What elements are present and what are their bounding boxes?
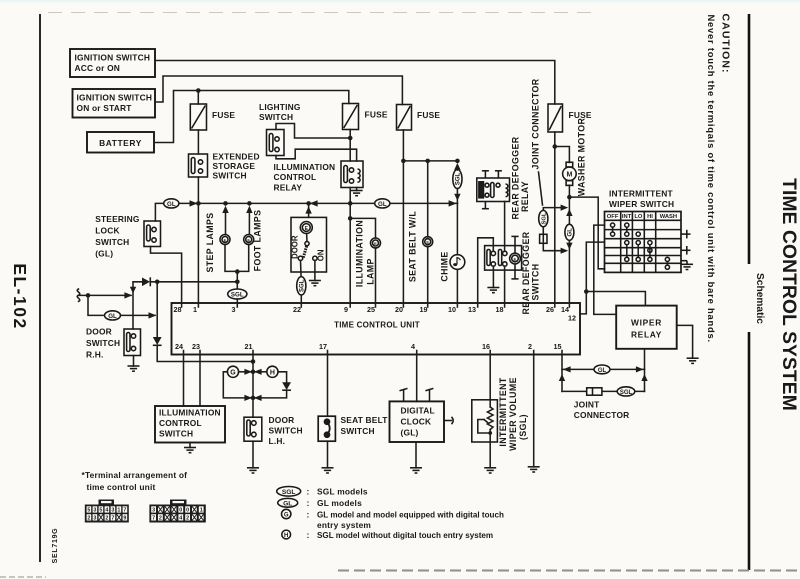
wiper switch terminal stub 1 bbox=[681, 230, 691, 239]
wire diode D2 to pin21 node bbox=[157, 345, 253, 361]
G circle bbox=[227, 366, 238, 377]
ground wiper volume bbox=[484, 468, 496, 473]
svg-text:SWITCH: SWITCH bbox=[269, 426, 303, 436]
chime sounder bbox=[450, 255, 465, 270]
svg-text:0: 0 bbox=[179, 508, 182, 514]
door switch RH bbox=[124, 329, 141, 356]
step lamps connector arrow bbox=[222, 206, 228, 213]
svg-text:4: 4 bbox=[105, 508, 108, 514]
svg-text:STORAGE: STORAGE bbox=[213, 161, 256, 171]
wire: battery branch down to fuse1 bbox=[197, 91, 199, 105]
svg-text:TIME CONTROL UNIT: TIME CONTROL UNIT bbox=[334, 321, 420, 330]
wire chime to pin 10 bbox=[456, 269, 458, 303]
fuse F1 bbox=[190, 104, 206, 130]
wire squiggle to door switch column bbox=[79, 294, 132, 296]
svg-text:CAUTION:: CAUTION: bbox=[720, 14, 732, 74]
wiper switch column headers bbox=[607, 214, 677, 220]
svg-text:H: H bbox=[270, 370, 275, 377]
connector arrow G side bbox=[244, 369, 252, 375]
node bus/fuse1 bbox=[196, 201, 201, 206]
wire seat belt w/l column bbox=[427, 161, 429, 237]
ground digital clock bbox=[410, 468, 422, 473]
bulb seat belt w/l bbox=[423, 237, 433, 247]
svg-text:DOOR: DOOR bbox=[86, 327, 112, 337]
svg-text:ON: ON bbox=[316, 249, 325, 261]
svg-text:ACC or ON: ACC or ON bbox=[75, 63, 121, 73]
node bus/foot lamps bbox=[247, 201, 252, 206]
svg-text::: : bbox=[307, 530, 310, 540]
GL oval right bbox=[375, 199, 390, 208]
SGL oval lamps bbox=[228, 289, 247, 299]
svg-text::: : bbox=[307, 487, 310, 497]
svg-text:LOCK: LOCK bbox=[95, 226, 120, 236]
svg-text:SWITCH: SWITCH bbox=[95, 237, 129, 247]
svg-text:1: 1 bbox=[117, 508, 120, 514]
svg-text:EL-102: EL-102 bbox=[10, 263, 30, 329]
seat belt switch bbox=[318, 416, 335, 441]
svg-text:SEL719G: SEL719G bbox=[52, 528, 59, 564]
wire lamps merge bbox=[225, 245, 249, 272]
svg-text:3: 3 bbox=[93, 516, 96, 522]
svg-text:E: E bbox=[247, 237, 250, 242]
wire fuse1 to ESS bbox=[197, 130, 199, 154]
svg-text:DOOR: DOOR bbox=[291, 235, 300, 259]
connector arrow up right bbox=[641, 374, 647, 381]
svg-text:SWITCH: SWITCH bbox=[259, 112, 293, 122]
wire pin 2 to ground bbox=[533, 355, 535, 467]
connector arrow into interior lamp node bbox=[310, 200, 318, 206]
svg-text:SWITCH: SWITCH bbox=[159, 429, 193, 439]
svg-text:12: 12 bbox=[568, 314, 576, 323]
SGL oval joint connector bbox=[539, 210, 548, 226]
node pin21 diode row bbox=[251, 359, 256, 364]
wire feed node to wiper relay top bbox=[586, 292, 645, 306]
svg-text:SWITCH: SWITCH bbox=[86, 338, 120, 348]
wiper switch contacts OFF bbox=[611, 223, 615, 236]
wire H to node bbox=[255, 371, 267, 373]
wire H loop upper bbox=[278, 372, 287, 382]
wire door switch RH column bbox=[133, 282, 142, 329]
svg-text:24: 24 bbox=[175, 342, 183, 351]
svg-text:RELAY: RELAY bbox=[274, 183, 303, 193]
node washer branch bbox=[553, 144, 558, 149]
wire GL oval to diode column bbox=[121, 314, 156, 316]
svg-text:1: 1 bbox=[193, 305, 197, 314]
svg-text:WASH: WASH bbox=[660, 214, 677, 220]
diode D1 bbox=[142, 277, 150, 286]
node illumination branch bbox=[348, 216, 353, 221]
interior lamp contact ON bbox=[313, 256, 317, 260]
ground below illumination control relay bbox=[356, 188, 358, 191]
connector arrow up left bbox=[559, 374, 565, 381]
wire defogger switch to pin 18 bbox=[504, 266, 506, 303]
svg-text:23: 23 bbox=[192, 342, 200, 351]
svg-text:20: 20 bbox=[395, 305, 403, 314]
svg-text:CHIME: CHIME bbox=[440, 251, 450, 281]
svg-text:ILLUMINATION: ILLUMINATION bbox=[355, 220, 365, 287]
intermittent wiper volume box bbox=[472, 400, 498, 442]
door switch LH bbox=[244, 417, 262, 441]
wire illumination control switch ground bbox=[189, 443, 191, 448]
wire merge to SGL bbox=[236, 271, 238, 289]
svg-text:3: 3 bbox=[111, 508, 114, 514]
interior lamp box bbox=[291, 217, 327, 272]
svg-text:HI: HI bbox=[647, 214, 653, 220]
svg-text:GL: GL bbox=[598, 368, 607, 374]
wire relay output to defogger switch bbox=[504, 202, 506, 252]
wire pin 21 column bbox=[252, 355, 254, 418]
joint connector body bbox=[540, 227, 547, 244]
svg-text:TIME CONTROL SYSTEM: TIME CONTROL SYSTEM bbox=[778, 178, 799, 411]
svg-text:25: 25 bbox=[367, 305, 375, 314]
wiper switch contacts WASH bbox=[665, 257, 669, 269]
wire washer branch bbox=[555, 147, 570, 163]
wiper switch ground stub bbox=[681, 260, 687, 262]
diode D3 bbox=[282, 382, 291, 390]
svg-text:E: E bbox=[374, 241, 377, 246]
svg-text:17: 17 bbox=[319, 342, 327, 351]
wiper switch terminal stub 2 bbox=[681, 246, 691, 255]
node squiggle junction bbox=[86, 293, 91, 298]
svg-text:(GL): (GL) bbox=[95, 249, 113, 259]
time control unit box bbox=[172, 303, 581, 355]
node wiper feed bbox=[584, 289, 589, 294]
H circle bbox=[267, 366, 278, 377]
svg-text:FUSE: FUSE bbox=[212, 110, 235, 120]
defogger bulb terminal bottom bbox=[511, 264, 518, 279]
wire pin 23 to illumination control switch bbox=[199, 355, 201, 407]
legend GL oval bbox=[278, 498, 298, 507]
washer motor bbox=[563, 162, 577, 185]
wire pin 16 column lower bbox=[489, 430, 491, 468]
svg-text:SWITCH: SWITCH bbox=[213, 171, 247, 181]
svg-text:2: 2 bbox=[159, 516, 162, 522]
ignition switch ON/START box bbox=[73, 89, 156, 118]
pin numbers top row bbox=[174, 305, 577, 323]
ground pin 2 bbox=[528, 467, 540, 472]
svg-text:RELAY: RELAY bbox=[631, 330, 662, 340]
svg-text:IGNITION SWITCH: IGNITION SWITCH bbox=[77, 93, 153, 103]
rear defogger relay terminal stubs bottom bbox=[482, 202, 489, 209]
wire foot lamp column bbox=[248, 211, 250, 235]
svg-text:2: 2 bbox=[87, 516, 90, 522]
svg-text:G: G bbox=[284, 513, 289, 519]
wiper volume tap bbox=[478, 420, 490, 434]
wire step lamp column bbox=[225, 211, 227, 235]
connector arrow down on door column bbox=[130, 287, 136, 294]
wire washer column lower bbox=[568, 240, 570, 303]
digital clock side terminal bbox=[444, 417, 453, 424]
svg-text:RELAY: RELAY bbox=[520, 181, 530, 212]
svg-text:SGL: SGL bbox=[456, 173, 462, 186]
connector arrow into diode column bbox=[149, 312, 157, 318]
svg-text:EXTENDED: EXTENDED bbox=[213, 152, 260, 162]
GL oval washer column bbox=[565, 224, 574, 240]
svg-text:Schematic: Schematic bbox=[754, 273, 765, 324]
ground door switch LH bbox=[247, 468, 259, 473]
svg-text:GL: GL bbox=[378, 201, 387, 208]
svg-text:ILLUMINATION: ILLUMINATION bbox=[274, 162, 336, 172]
legend SGL oval bbox=[277, 487, 301, 497]
svg-text:28: 28 bbox=[174, 305, 182, 314]
svg-text:ON or START: ON or START bbox=[77, 103, 133, 113]
wire GL bypass bbox=[88, 295, 103, 315]
svg-text:GL: GL bbox=[568, 228, 574, 237]
node bus/illumination relay column bbox=[348, 201, 353, 206]
GL oval bypass bbox=[105, 311, 121, 320]
svg-text:E: E bbox=[426, 240, 429, 245]
svg-text:SWITCH: SWITCH bbox=[531, 263, 541, 300]
svg-text:(GL): (GL) bbox=[401, 428, 419, 438]
svg-text:INTERMITTENT: INTERMITTENT bbox=[609, 189, 673, 199]
digital clock stub terminal right bbox=[425, 388, 433, 401]
rear defogger relay terminal stubs top bbox=[482, 171, 502, 178]
svg-text:19: 19 bbox=[420, 305, 428, 314]
svg-text:Never touch the termiqals of t: Never touch the termiqals of time contro… bbox=[706, 15, 717, 343]
wire bus to interior lamp box bbox=[308, 203, 310, 217]
wire continuation squiggle bbox=[77, 289, 80, 301]
svg-text:GL models: GL models bbox=[317, 498, 362, 508]
defogger bulb terminal top bbox=[511, 236, 518, 253]
svg-text:(SGL): (SGL) bbox=[518, 414, 528, 440]
node battery/fuse1 junction bbox=[196, 88, 201, 93]
wire diode to node bbox=[150, 281, 237, 283]
leader joint connector bbox=[539, 172, 543, 205]
svg-text:L.H.: L.H. bbox=[269, 436, 286, 446]
wire fuse4 to pin 26 bbox=[554, 132, 556, 303]
bulb foot lamp bbox=[244, 235, 254, 245]
rear defogger relay bbox=[477, 178, 510, 202]
connector arrow right at relay drop bbox=[636, 366, 644, 372]
node seat belt feed bbox=[401, 159, 406, 164]
steering lock switch bbox=[144, 221, 161, 247]
svg-text:BATTERY: BATTERY bbox=[99, 138, 142, 148]
rear defogger switch bbox=[485, 246, 522, 271]
right margin rule lower bbox=[748, 332, 751, 570]
node pin21 G/H row bbox=[251, 370, 256, 375]
svg-text:WIPER VOLUME: WIPER VOLUME bbox=[508, 377, 518, 451]
wire fuse3 to pin 20 bbox=[402, 130, 404, 303]
svg-text:STEERING: STEERING bbox=[95, 214, 139, 224]
wire G to node bbox=[239, 371, 251, 373]
fuse F4 bbox=[548, 104, 563, 132]
washer column connector arrow down bbox=[566, 243, 572, 250]
svg-text:2: 2 bbox=[186, 516, 189, 522]
svg-text:LO: LO bbox=[634, 214, 643, 220]
node pin21 lower row bbox=[251, 396, 256, 401]
wire pin 15 down bbox=[561, 355, 563, 392]
svg-text:R.H.: R.H. bbox=[86, 350, 104, 360]
wire SGL to pin 3 bbox=[236, 299, 238, 303]
battery box bbox=[87, 132, 154, 153]
svg-text:SGL: SGL bbox=[542, 212, 548, 224]
svg-text:9: 9 bbox=[123, 516, 126, 522]
node bus/interior lamp bbox=[306, 201, 311, 206]
svg-text:CONNECTOR: CONNECTOR bbox=[574, 410, 630, 420]
connector arrow H loop bbox=[254, 395, 262, 401]
svg-text:ILLUMINATION: ILLUMINATION bbox=[159, 408, 221, 418]
bulb illumination lamp bbox=[371, 238, 381, 248]
ground interior lamp bbox=[309, 281, 321, 286]
svg-text:0: 0 bbox=[186, 508, 189, 514]
diode D2 bbox=[153, 337, 162, 345]
wire joint connector chain top bbox=[543, 208, 564, 211]
svg-text:FUSE: FUSE bbox=[365, 110, 388, 120]
svg-text:SEAT BELT: SEAT BELT bbox=[341, 415, 389, 425]
svg-text:REAR DEFOGGER: REAR DEFOGGER bbox=[511, 136, 521, 219]
node washer junction bbox=[567, 195, 572, 200]
illumination control switch box bbox=[155, 406, 225, 443]
wiper switch contacts INT bbox=[625, 223, 629, 262]
svg-text:*Terminal arrangement of: *Terminal arrangement of bbox=[82, 470, 188, 480]
bulb interior lamp bbox=[300, 222, 312, 234]
wire illumination lamp to pin 25 bbox=[375, 248, 377, 303]
svg-text:FOOT LAMPS: FOOT LAMPS bbox=[253, 210, 263, 272]
wire SGL to pin 22 bbox=[300, 295, 302, 303]
SGL row wire bbox=[562, 390, 645, 392]
wire door switch RH to ground bbox=[133, 356, 135, 367]
ground door switch RH bbox=[128, 366, 140, 371]
svg-text:LAMP: LAMP bbox=[366, 258, 376, 285]
svg-text:M: M bbox=[566, 172, 572, 179]
extended storage switch ESS bbox=[189, 154, 208, 177]
right margin rule upper bbox=[748, 14, 751, 264]
svg-text:7: 7 bbox=[123, 508, 126, 514]
svg-text::: : bbox=[307, 510, 310, 520]
wire door switch LH ground bbox=[252, 441, 254, 468]
wire ON contact to ground bbox=[314, 261, 316, 281]
chime connector arrow up bbox=[454, 163, 460, 170]
svg-text:INT: INT bbox=[622, 214, 632, 220]
joint connector body lower bbox=[587, 388, 602, 395]
svg-text:7: 7 bbox=[111, 516, 114, 522]
wire wiper switch row1 to wiper relay bbox=[594, 225, 616, 314]
bottom page edge dashes bbox=[338, 570, 800, 572]
svg-text:SGL models: SGL models bbox=[317, 487, 368, 497]
interior lamp movable contact bbox=[303, 246, 306, 258]
svg-text:DIGITAL: DIGITAL bbox=[401, 406, 435, 416]
svg-text:SGL: SGL bbox=[300, 279, 306, 292]
svg-text:3: 3 bbox=[152, 508, 155, 514]
wire wiper relay to ground bbox=[677, 325, 693, 358]
wire defogger switch to ground bbox=[492, 266, 494, 287]
svg-text:GL: GL bbox=[283, 500, 292, 507]
svg-text:E: E bbox=[514, 256, 517, 261]
svg-text:1: 1 bbox=[200, 508, 203, 514]
node diode output bbox=[155, 280, 160, 285]
wire pin 16 column upper bbox=[489, 355, 491, 408]
svg-text:WIPER SWITCH: WIPER SWITCH bbox=[609, 199, 674, 209]
wire H loop lower bbox=[255, 390, 287, 398]
ground wiper relay bbox=[687, 358, 699, 363]
svg-text:SGL: SGL bbox=[231, 291, 244, 298]
wire interior lamp to SGL bbox=[300, 261, 303, 278]
svg-text:18: 18 bbox=[496, 305, 504, 314]
node chime tap bbox=[455, 159, 460, 164]
wiper switch contacts HI bbox=[648, 241, 652, 262]
wire steering lock to pin 28 bbox=[151, 247, 182, 304]
wire washer junction to wiper switch wash row bbox=[569, 197, 604, 269]
svg-text:LIGHTING: LIGHTING bbox=[259, 102, 301, 112]
GL bus wire bbox=[179, 202, 458, 204]
wire lighting switch top tab to fuse2 line bbox=[276, 124, 350, 139]
svg-text:22: 22 bbox=[293, 305, 301, 314]
wire pin 17 to seat belt switch bbox=[327, 355, 329, 417]
wire illumination lamp branch bbox=[350, 218, 375, 238]
svg-text:GL model and model equipped wi: GL model and model equipped with digital… bbox=[317, 511, 504, 520]
connector arrow left at pin15 bbox=[563, 366, 571, 372]
svg-text:WASHER MOTOR: WASHER MOTOR bbox=[577, 118, 587, 197]
svg-text:GL: GL bbox=[167, 201, 176, 208]
pin numbers bottom row bbox=[175, 342, 562, 351]
node wiper volume tap bbox=[488, 431, 492, 435]
svg-text:STEP LAMPS: STEP LAMPS bbox=[205, 212, 215, 272]
svg-text:2: 2 bbox=[528, 342, 532, 351]
svg-text:JOINT CONNECTOR: JOINT CONNECTOR bbox=[531, 78, 541, 169]
svg-text:FUSE: FUSE bbox=[417, 110, 440, 120]
ignition switch ACC box bbox=[70, 49, 155, 77]
node lamps merge bbox=[235, 269, 240, 274]
GL oval joint loop bbox=[594, 365, 610, 374]
connector arrow into door switch column bbox=[124, 292, 132, 298]
svg-text:21: 21 bbox=[245, 342, 253, 351]
legend H circle bbox=[282, 530, 291, 539]
defogger switch indicator bulb bbox=[510, 253, 521, 264]
svg-text:13: 13 bbox=[468, 305, 476, 314]
pin ticks top edge bbox=[182, 303, 570, 307]
wire G loop bbox=[223, 372, 251, 398]
legend G circle bbox=[282, 509, 291, 518]
wire: ON/START feed to fuse3 bbox=[155, 76, 402, 105]
svg-text:CONTROL: CONTROL bbox=[159, 418, 202, 428]
digital clock box bbox=[390, 401, 445, 442]
wire steering lock to GL bus bbox=[155, 203, 163, 221]
interior lamp contact DOOR bbox=[298, 256, 302, 260]
wire ESS down to pin 1 bbox=[197, 177, 199, 303]
svg-text:5: 5 bbox=[87, 508, 90, 514]
digital clock stub terminal left bbox=[400, 388, 408, 401]
wire seat belt w/l to pin 19 bbox=[427, 247, 429, 303]
svg-text:10: 10 bbox=[448, 305, 456, 314]
wire: battery feed to fuse1 and fuse2 bbox=[154, 91, 349, 143]
svg-text:INTERMITTENT: INTERMITTENT bbox=[498, 377, 508, 447]
interior lamp switch contact common bbox=[306, 234, 308, 242]
svg-text:7: 7 bbox=[152, 516, 155, 522]
wire pin 24 to illumination control switch bbox=[183, 355, 185, 407]
pin ticks bottom edge bbox=[184, 351, 563, 355]
bulb step lamp bbox=[220, 235, 230, 245]
wiper switch contacts LO bbox=[636, 232, 640, 262]
svg-text:E: E bbox=[224, 237, 227, 242]
wire pin 13 to defogger switch bbox=[478, 238, 494, 303]
svg-text:REAR DEFOGGER: REAR DEFOGGER bbox=[521, 231, 531, 314]
illumination control relay bbox=[341, 161, 363, 188]
ground wiper switch bbox=[681, 264, 693, 269]
wiper volume resistor bbox=[487, 407, 493, 430]
wire washer motor to junction bbox=[568, 185, 570, 197]
wire wiper switch row3 to pin 12 bbox=[580, 242, 605, 314]
node fuse2/lighting junction bbox=[348, 136, 353, 141]
wire lighting switch bottom tab to relay coil bbox=[276, 149, 357, 161]
GL oval left bbox=[164, 199, 179, 208]
SGL oval interior lamp bbox=[297, 277, 306, 295]
connector arrow into washer column bbox=[561, 205, 569, 211]
svg-text:entry system: entry system bbox=[317, 520, 371, 530]
wire joint connector chain bottom bbox=[543, 243, 564, 250]
wire fuse2 to relay bbox=[349, 130, 351, 162]
wiper relay box bbox=[616, 306, 677, 349]
node bus/step lamps bbox=[223, 201, 228, 206]
